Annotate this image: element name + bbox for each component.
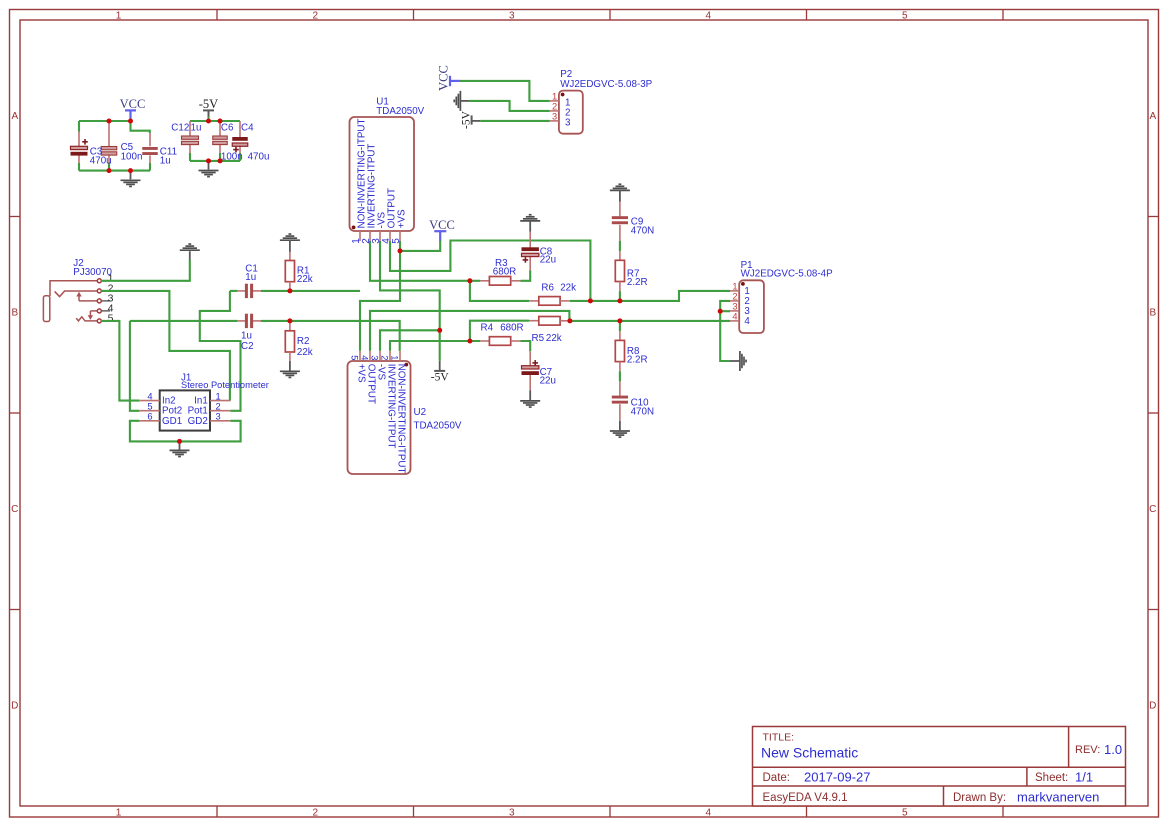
svg-text:6: 6 bbox=[147, 412, 152, 422]
svg-text:470N: 470N bbox=[631, 406, 654, 417]
svg-text:2: 2 bbox=[312, 808, 318, 819]
svg-text:Stereo Potentiometer: Stereo Potentiometer bbox=[181, 380, 269, 390]
svg-text:5: 5 bbox=[108, 313, 114, 325]
svg-text:INVERTING-ITPUT: INVERTING-ITPUT bbox=[386, 364, 397, 449]
svg-text:1: 1 bbox=[552, 91, 557, 101]
svg-text:TDA2050V: TDA2050V bbox=[376, 106, 424, 117]
svg-text:WJ2EDGVC-5.08-4P: WJ2EDGVC-5.08-4P bbox=[741, 269, 833, 280]
svg-text:VCC: VCC bbox=[120, 97, 146, 111]
svg-text:New Schematic: New Schematic bbox=[761, 745, 858, 761]
svg-text:2: 2 bbox=[552, 101, 557, 111]
svg-text:470N: 470N bbox=[631, 225, 654, 236]
svg-text:22k: 22k bbox=[546, 333, 562, 344]
svg-text:4: 4 bbox=[732, 311, 737, 321]
svg-text:1u: 1u bbox=[160, 155, 171, 166]
svg-text:EasyEDA V4.9.1: EasyEDA V4.9.1 bbox=[763, 792, 848, 804]
svg-text:680R: 680R bbox=[500, 322, 523, 333]
svg-text:R2: R2 bbox=[297, 336, 310, 347]
svg-text:U2: U2 bbox=[414, 407, 427, 418]
svg-text:2: 2 bbox=[379, 355, 389, 360]
svg-text:R5: R5 bbox=[532, 333, 545, 344]
svg-text:3: 3 bbox=[216, 412, 221, 422]
svg-text:REV:: REV: bbox=[1075, 744, 1100, 756]
svg-text:C12: C12 bbox=[171, 122, 189, 133]
svg-text:1: 1 bbox=[389, 355, 399, 360]
svg-text:2: 2 bbox=[732, 291, 737, 301]
svg-text:1: 1 bbox=[732, 281, 737, 291]
svg-text:A: A bbox=[1149, 111, 1156, 122]
svg-text:680R: 680R bbox=[493, 267, 516, 278]
svg-text:1/1: 1/1 bbox=[1075, 770, 1093, 785]
svg-text:+VS: +VS bbox=[397, 209, 408, 228]
svg-text:22u: 22u bbox=[540, 376, 556, 387]
svg-text:1: 1 bbox=[116, 11, 122, 22]
svg-text:22k: 22k bbox=[297, 347, 313, 358]
svg-text:2017-09-27: 2017-09-27 bbox=[804, 770, 871, 785]
svg-text:-5V: -5V bbox=[431, 372, 450, 384]
svg-text:2.2R: 2.2R bbox=[627, 354, 648, 365]
svg-text:3: 3 bbox=[509, 11, 515, 22]
svg-text:3: 3 bbox=[565, 117, 571, 128]
svg-text:2: 2 bbox=[216, 402, 221, 412]
svg-text:1.0: 1.0 bbox=[1104, 742, 1122, 757]
svg-text:100n: 100n bbox=[221, 151, 243, 162]
svg-text:5: 5 bbox=[349, 355, 359, 360]
svg-text:A: A bbox=[11, 111, 18, 122]
svg-text:-5V: -5V bbox=[199, 97, 218, 111]
svg-text:3: 3 bbox=[552, 111, 557, 121]
svg-text:D: D bbox=[1149, 701, 1156, 712]
svg-text:R4: R4 bbox=[481, 322, 494, 333]
svg-text:4: 4 bbox=[705, 808, 711, 819]
svg-text:C6: C6 bbox=[221, 123, 234, 134]
svg-text:1u: 1u bbox=[191, 122, 202, 133]
svg-text:2.2R: 2.2R bbox=[627, 277, 648, 288]
svg-text:3: 3 bbox=[509, 808, 515, 819]
svg-text:VCC: VCC bbox=[429, 218, 455, 232]
svg-text:Drawn By:: Drawn By: bbox=[953, 792, 1006, 804]
svg-text:1: 1 bbox=[216, 391, 221, 401]
svg-text:C: C bbox=[11, 504, 18, 515]
svg-text:1: 1 bbox=[116, 808, 122, 819]
svg-text:4: 4 bbox=[359, 355, 369, 360]
svg-text:22k: 22k bbox=[560, 283, 576, 294]
svg-text:VCC: VCC bbox=[436, 65, 450, 91]
svg-text:2: 2 bbox=[312, 11, 318, 22]
svg-text:+VS: +VS bbox=[356, 364, 367, 383]
svg-text:GD2: GD2 bbox=[188, 416, 208, 427]
svg-text:470u: 470u bbox=[248, 151, 270, 162]
svg-text:Sheet:: Sheet: bbox=[1035, 772, 1068, 784]
svg-text:-VS: -VS bbox=[376, 364, 387, 381]
svg-text:TITLE:: TITLE: bbox=[763, 732, 795, 744]
svg-text:470u: 470u bbox=[90, 155, 112, 166]
svg-text:OUTPUT: OUTPUT bbox=[366, 364, 377, 404]
svg-text:WJ2EDGVC-5.08-3P: WJ2EDGVC-5.08-3P bbox=[560, 79, 652, 90]
svg-text:3: 3 bbox=[369, 355, 379, 360]
svg-text:3: 3 bbox=[732, 301, 737, 311]
svg-text:22k: 22k bbox=[297, 274, 313, 285]
svg-text:Date:: Date: bbox=[763, 772, 791, 784]
svg-text:5: 5 bbox=[902, 808, 908, 819]
svg-text:C: C bbox=[1149, 504, 1156, 515]
svg-text:C4: C4 bbox=[241, 123, 254, 134]
svg-text:4: 4 bbox=[705, 11, 711, 22]
svg-text:100n: 100n bbox=[121, 151, 143, 162]
svg-text:5: 5 bbox=[147, 402, 152, 412]
svg-text:R6: R6 bbox=[541, 283, 554, 294]
svg-text:NON-INVERTING-ITPUT: NON-INVERTING-ITPUT bbox=[396, 364, 407, 474]
svg-text:4: 4 bbox=[744, 316, 750, 327]
svg-text:4: 4 bbox=[147, 391, 152, 401]
svg-text:markvanerven: markvanerven bbox=[1017, 790, 1099, 805]
svg-text:22u: 22u bbox=[540, 255, 556, 266]
svg-text:B: B bbox=[1149, 308, 1156, 319]
svg-text:TDA2050V: TDA2050V bbox=[414, 421, 462, 432]
svg-text:C2: C2 bbox=[241, 341, 254, 352]
svg-text:GD1: GD1 bbox=[162, 416, 182, 427]
svg-text:D: D bbox=[11, 701, 18, 712]
svg-text:1u: 1u bbox=[245, 272, 256, 283]
svg-text:B: B bbox=[11, 308, 18, 319]
svg-text:5: 5 bbox=[902, 11, 908, 22]
